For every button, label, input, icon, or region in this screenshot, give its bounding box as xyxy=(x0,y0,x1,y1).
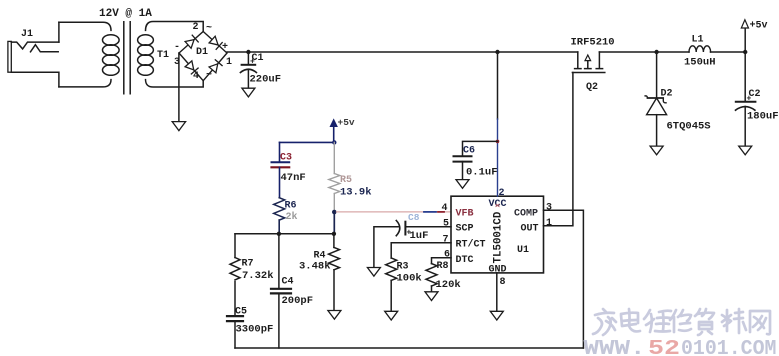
ground R3 xyxy=(385,311,398,320)
svg-text:C3: C3 xyxy=(280,153,292,164)
ground D2 xyxy=(650,146,663,155)
svg-text:7.32k: 7.32k xyxy=(242,270,274,282)
wire R7 top lead xyxy=(234,234,236,258)
svg-text:DTC: DTC xyxy=(456,255,474,266)
wire J1 switch contact xyxy=(31,45,59,52)
svg-text:1uF: 1uF xyxy=(410,230,429,242)
power +5v output arrow xyxy=(744,28,746,52)
wire C6 bottom to ground xyxy=(462,162,464,180)
capacitor C6 xyxy=(454,146,498,179)
wire bottom rail xyxy=(235,347,583,349)
wire secondary bottom to bridge pin 4 xyxy=(146,80,204,87)
ground bridge xyxy=(172,122,185,131)
svg-text:200pF: 200pF xyxy=(282,295,314,307)
wire VFB pink to pin 4 xyxy=(337,211,452,213)
transformer T1 primary top lead xyxy=(59,22,111,30)
svg-text:3300pF: 3300pF xyxy=(236,324,274,336)
node D2 junction xyxy=(654,50,658,54)
wire pin6 lead xyxy=(432,258,452,264)
wire main rail bridge to Q2 xyxy=(227,51,578,53)
svg-text:~: ~ xyxy=(206,23,212,34)
node C4 top junction xyxy=(277,232,281,236)
svg-text:+: + xyxy=(747,95,752,104)
svg-text:VFB: VFB xyxy=(456,209,474,220)
svg-text:Q2: Q2 xyxy=(586,82,598,93)
svg-text:IRF5210: IRF5210 xyxy=(571,37,615,49)
svg-text:8: 8 xyxy=(500,277,506,288)
ground C2 xyxy=(739,146,752,155)
transformer T1 core xyxy=(124,22,130,94)
connector J1 barrel xyxy=(8,41,11,72)
svg-text:C4: C4 xyxy=(282,277,294,288)
svg-text:1: 1 xyxy=(226,57,232,68)
wire C3 top lead xyxy=(279,142,281,162)
svg-text:RT/CT: RT/CT xyxy=(456,238,486,250)
svg-text:L1: L1 xyxy=(692,35,704,46)
svg-text:+: + xyxy=(250,58,255,67)
svg-text:SCP: SCP xyxy=(456,224,474,235)
wire J1 sleeve contact xyxy=(11,72,59,87)
wire pin5 to C8 xyxy=(405,226,451,228)
node R5 top junction xyxy=(332,140,336,144)
wire C4 bottom to bottom rail xyxy=(278,293,280,348)
watermark 家电维修资料网 drawn strokes xyxy=(593,309,770,335)
wire C6 stub xyxy=(463,141,498,155)
wire VFB colored dashes near IC xyxy=(424,211,436,213)
gate bar xyxy=(572,72,604,74)
wire COMP pin 3 to bottom rail xyxy=(544,210,584,348)
svg-text:J1: J1 xyxy=(21,29,33,40)
svg-text:2: 2 xyxy=(193,22,199,33)
svg-text:6: 6 xyxy=(444,250,450,261)
capacitor C3 xyxy=(272,153,306,185)
svg-text:4: 4 xyxy=(442,203,448,214)
ground C6 xyxy=(456,180,469,189)
resistor R3 xyxy=(386,258,397,280)
wire R4 top lead xyxy=(333,234,335,248)
svg-text:2: 2 xyxy=(499,188,505,199)
svg-text:COMP: COMP xyxy=(514,209,538,220)
wire VCC tap lower blue xyxy=(497,119,499,196)
wire R5 top lead xyxy=(333,142,335,173)
wire OUT pin 1 to gate xyxy=(544,73,573,226)
ground U1 xyxy=(490,311,503,320)
capacitor C1 xyxy=(240,52,281,88)
wire R8 bottom to ground xyxy=(431,286,433,292)
svg-text:4: 4 xyxy=(193,71,199,82)
svg-text:D2: D2 xyxy=(661,89,673,100)
node VFB junction xyxy=(332,210,337,215)
wire C4 top lead xyxy=(278,234,280,289)
wire VFB node down to R4 node xyxy=(333,212,335,234)
svg-text:D1: D1 xyxy=(196,47,208,58)
bridge D1 diode top-right xyxy=(209,36,222,49)
wire GND pin 8 to ground xyxy=(496,273,498,311)
wire main rail L1 to output node xyxy=(711,51,746,53)
resistor R5 xyxy=(329,174,340,194)
wire navy horizontal to C3 branch xyxy=(280,141,335,143)
svg-text:13.9k: 13.9k xyxy=(340,187,372,199)
source lead xyxy=(575,52,581,69)
svg-text:+5v: +5v xyxy=(750,21,768,32)
power +5v mid arrow xyxy=(330,120,337,143)
svg-text:180uF: 180uF xyxy=(747,111,779,123)
svg-text:R6: R6 xyxy=(285,201,297,212)
node R4 top junction xyxy=(332,232,336,236)
watermark WWW.520101.COM xyxy=(584,338,777,356)
node output junction xyxy=(743,50,747,54)
transformer T1 primary bottom lead xyxy=(59,80,111,87)
wire riser to primary top xyxy=(58,22,60,42)
svg-text:U1: U1 xyxy=(517,245,529,256)
svg-text:3: 3 xyxy=(546,203,552,214)
diode D2 xyxy=(645,52,711,146)
svg-text:R5: R5 xyxy=(340,175,352,186)
op-amp U1 TL5001CD box xyxy=(451,196,544,273)
svg-text:TL5001CD: TL5001CD xyxy=(493,211,505,263)
wire C5 bottom to bottom rail xyxy=(234,321,236,348)
svg-text:OUT: OUT xyxy=(521,224,539,235)
transistor Q2 IRF5210 xyxy=(571,37,615,94)
wire C3 to R6 xyxy=(279,167,281,197)
svg-text:3.48k: 3.48k xyxy=(299,261,331,273)
resistor R6 xyxy=(274,198,285,220)
svg-text:220uF: 220uF xyxy=(250,74,282,86)
resistor R8 xyxy=(426,264,437,286)
wire secondary top to bridge pin 2 xyxy=(146,22,204,32)
wire R4 bottom to ground xyxy=(333,270,335,311)
wire R5 bottom lead xyxy=(333,194,335,213)
bridge rectifier D1 diamond xyxy=(179,32,227,81)
bridge D1 diode top-left xyxy=(185,35,198,48)
node VCC tap junction xyxy=(495,50,499,54)
svg-text:47nF: 47nF xyxy=(281,172,306,184)
svg-text:5: 5 xyxy=(443,219,449,230)
svg-text:2k: 2k xyxy=(286,211,298,223)
wire R7 to C5 xyxy=(234,282,236,316)
transformer T1 secondary winding xyxy=(138,35,154,46)
svg-text:+5v: +5v xyxy=(338,117,355,128)
ground C1 xyxy=(242,88,255,97)
svg-text:1: 1 xyxy=(546,218,552,229)
svg-text:12V @ 1A: 12V @ 1A xyxy=(99,8,152,20)
wire R6 bottom xyxy=(278,220,280,234)
bridge D1 diode bottom-left xyxy=(185,61,198,74)
node C6 stub junction xyxy=(496,140,500,144)
inductor L1 xyxy=(684,35,716,69)
svg-text:52: 52 xyxy=(648,338,680,356)
resistor R7 xyxy=(230,258,240,280)
wire main rail Q2 drain to L1 xyxy=(599,51,689,53)
svg-text:R7: R7 xyxy=(242,259,254,270)
transformer T1 primary winding xyxy=(103,35,120,46)
capacitor C2 xyxy=(736,52,779,146)
wire J1 tip contact with spring notch xyxy=(11,42,59,49)
wire pin7 lead xyxy=(391,243,451,258)
wire R3 bottom to ground xyxy=(390,280,392,311)
wire VCC tap upper xyxy=(497,52,499,119)
svg-text:~: ~ xyxy=(206,70,212,81)
svg-text:6TQ045S: 6TQ045S xyxy=(667,121,711,133)
body arrow xyxy=(585,60,591,69)
svg-text:R8: R8 xyxy=(437,261,449,272)
ground C8 xyxy=(367,268,380,277)
bridge D1 diode bottom-right xyxy=(209,60,222,73)
svg-text:100k: 100k xyxy=(397,273,422,285)
svg-text:C5: C5 xyxy=(235,307,247,318)
svg-text:0101.COM: 0101.COM xyxy=(681,338,777,356)
resistor R4 xyxy=(329,247,340,269)
wire bridge pin3 to ground xyxy=(178,53,180,122)
svg-text:T1: T1 xyxy=(157,50,169,61)
svg-text:-: - xyxy=(174,42,180,53)
node C1 junction xyxy=(246,50,250,54)
svg-text:0.1uF: 0.1uF xyxy=(466,167,498,179)
svg-text:C8: C8 xyxy=(408,212,420,223)
svg-text:WWW.: WWW. xyxy=(584,338,646,356)
ground R8 xyxy=(425,292,438,301)
svg-text:7: 7 xyxy=(443,234,449,245)
svg-text:C6: C6 xyxy=(463,146,475,157)
schottky cathode bar xyxy=(645,96,666,103)
ground R4 xyxy=(328,311,341,320)
capacitor C4 xyxy=(271,277,313,308)
svg-text:120k: 120k xyxy=(436,279,461,291)
svg-text:R3: R3 xyxy=(397,262,409,273)
wire horizontal net y234 xyxy=(235,233,334,235)
drain lead xyxy=(596,52,602,69)
capacitor C5 xyxy=(227,307,273,336)
capacitor C8 1uF xyxy=(374,212,429,268)
svg-text:150uH: 150uH xyxy=(684,57,716,69)
